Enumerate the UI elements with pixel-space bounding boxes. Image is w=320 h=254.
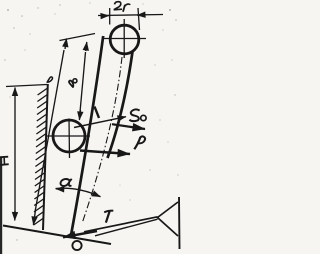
dimension H extension line (top)	[6, 85, 47, 87]
force S0 arrow	[112, 124, 145, 129]
label H	[0, 157, 9, 165]
bottom ball at rod foot	[72, 241, 81, 250]
middle roller center cross	[68, 119, 71, 159]
force P arrow	[80, 151, 130, 155]
top pulley center cross	[123, 19, 125, 58]
dimension H line with arrows	[14, 94, 16, 213]
label 2r	[114, 2, 130, 12]
label S0	[129, 109, 146, 121]
middle roller circle	[53, 120, 85, 152]
anchor post	[178, 197, 181, 249]
page edge streak (left)	[0, 157, 2, 254]
rod left side	[71, 36, 104, 238]
ground line	[3, 226, 111, 245]
tension T arrowhead	[63, 231, 97, 237]
label T	[104, 211, 113, 223]
transverse tick at top of dimensions	[60, 34, 96, 41]
angle alpha arc	[56, 188, 101, 196]
anchor bracket triangle	[158, 202, 179, 236]
wall hatching	[34, 88, 48, 225]
rod axis (dash-dot)	[83, 57, 123, 222]
rope lower line	[95, 219, 158, 236]
dimension 2r line	[98, 15, 163, 16]
dimension l0 line	[80, 52, 86, 112]
rope upper line	[84, 217, 158, 232]
tick at S0 application point	[74, 117, 126, 128]
l0 lower arrow mark	[95, 107, 100, 119]
scan noise specks	[4, 2, 178, 240]
label alpha	[61, 179, 72, 186]
dimension l line (long, parallel to rod)	[35, 50, 64, 212]
rod right side	[108, 51, 133, 158]
top pulley circle	[110, 25, 139, 54]
label l0	[68, 77, 78, 88]
label P	[134, 136, 145, 149]
2r extension ticks	[109, 8, 111, 25]
wall edge	[43, 84, 48, 230]
label l	[47, 77, 53, 83]
